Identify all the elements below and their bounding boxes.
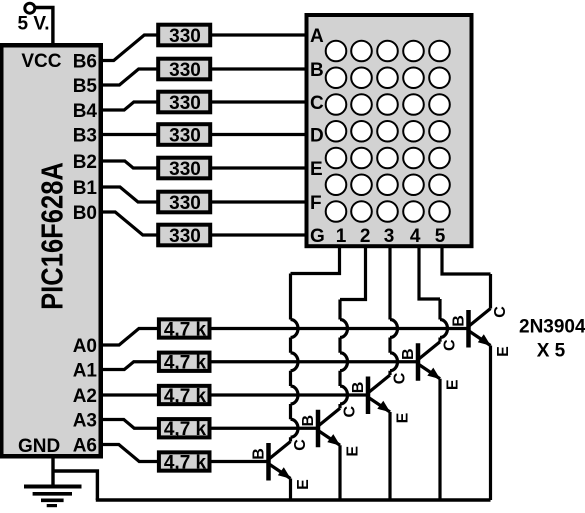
wire GND branch to emitter rail [53,471,97,500]
svg-text:PIC16F628A: PIC16F628A [35,162,70,310]
svg-text:4,7 k: 4,7 k [164,353,207,374]
wire B5 to R2 [101,69,158,85]
wire matrix column 4 to Q4 collector [419,246,440,299]
resistor R3 330 [158,92,210,114]
wire B2 to R5 [101,161,158,168]
power terminal 5V [25,3,35,13]
IC U1 PIC16F628A [1,45,101,456]
svg-text:4: 4 [410,226,421,247]
svg-text:E: E [345,446,362,457]
wire 5V to VCC [35,8,53,46]
svg-text:A2: A2 [73,386,97,407]
wire Q4 emitter to ground rail [438,379,441,500]
svg-text:G: G [310,226,325,247]
svg-text:330: 330 [169,26,201,47]
wire B1 to R6 [101,187,158,202]
wire Q2 emitter to ground rail [338,445,341,500]
resistor R10 4,7k [159,386,210,407]
svg-text:E: E [310,159,323,180]
svg-text:B3: B3 [73,125,97,146]
resistor R12 4,7k [159,452,210,473]
svg-text:330: 330 [169,125,201,146]
svg-text:B: B [251,448,268,460]
svg-text:B2: B2 [73,152,97,173]
wire R11 to base Q2 [212,427,319,430]
svg-text:B: B [400,348,417,360]
svg-text:B6: B6 [73,51,97,72]
LED matrix DIS1 5x7 [307,15,472,246]
resistor R4 330 [158,124,210,146]
svg-text:4,7 k: 4,7 k [164,452,207,473]
svg-text:2: 2 [360,226,371,247]
svg-text:X 5: X 5 [537,340,566,361]
svg-text:A3: A3 [73,410,97,431]
wire R3 to matrix row [212,100,307,103]
wire ground rail (emitters) [96,498,491,501]
svg-text:B: B [300,415,317,427]
wire A6 to R12 [101,445,158,462]
wire A0 to R8 [101,329,158,346]
wire B3 to R4 [101,133,158,136]
svg-text:4,7 k: 4,7 k [164,386,207,407]
wire R1 to matrix row [212,33,307,36]
svg-text:B: B [310,60,324,81]
svg-text:E: E [445,379,462,390]
wire GND pin down [51,456,54,486]
resistor R2 330 [158,59,210,81]
transistor Q4 2N3904 [400,339,462,390]
wire R6 to matrix row [212,200,307,203]
svg-text:GND: GND [18,436,60,457]
wire Q3 emitter to ground rail [388,412,391,500]
wire Q1 emitter to ground rail [289,479,292,501]
svg-text:4,7 k: 4,7 k [164,319,207,340]
svg-text:B: B [451,315,468,327]
svg-text:330: 330 [169,159,201,180]
ground [24,487,82,506]
svg-text:330: 330 [169,226,201,247]
wire A3 to R11 [101,420,158,429]
wire R12 to base Q1 [212,460,269,463]
wire A2 to R10 [101,393,158,396]
transistor Q5 2N3904 [451,306,513,357]
wire matrix column 5 to Q5 collector [442,246,491,274]
wire A1 to R9 [101,362,158,370]
wire R5 to matrix row [212,166,307,169]
svg-text:C: C [292,439,309,451]
wire B0 to R7 [101,212,158,235]
resistor R7 330 [158,225,210,247]
svg-text:2N3904: 2N3904 [519,316,585,337]
wire R9 to base Q4 [212,360,419,363]
svg-text:C: C [442,339,459,351]
resistor R6 330 [158,192,210,214]
resistor R11 4,7k [159,419,210,440]
svg-text:A0: A0 [73,336,97,357]
wire matrix column 1 to Q1 collector [291,246,340,274]
svg-text:1: 1 [336,226,347,247]
resistor R9 4,7k [159,353,210,374]
svg-text:5 V.: 5 V. [18,14,50,35]
svg-text:C: C [310,93,324,114]
svg-text:5: 5 [435,226,446,247]
svg-text:B4: B4 [73,101,98,122]
svg-text:3: 3 [384,226,395,247]
wire matrix column 2 to Q2 collector [340,246,366,300]
wire matrix column 3 to Q3 collector [389,244,392,247]
svg-text:A1: A1 [73,360,98,381]
svg-text:A6: A6 [73,435,97,456]
resistor R1 330 [158,25,210,47]
svg-text:A: A [310,26,324,47]
svg-text:C: C [492,306,509,318]
resistor R5 330 [158,158,210,180]
transistor Q2 2N3904 [300,406,362,457]
svg-text:330: 330 [169,93,201,114]
wire Q5 emitter to ground rail [489,346,492,501]
svg-text:B: B [350,382,367,394]
svg-text:VCC: VCC [21,51,61,72]
svg-text:C: C [342,406,359,418]
svg-text:E: E [395,412,412,423]
svg-text:D: D [310,125,324,146]
svg-text:330: 330 [169,60,201,81]
svg-text:B1: B1 [73,178,98,199]
svg-text:B5: B5 [73,76,98,97]
svg-text:B0: B0 [73,203,97,224]
svg-text:E: E [295,479,312,490]
wire R2 to matrix row [212,67,307,70]
svg-text:E: E [495,346,512,357]
svg-text:330: 330 [169,193,201,214]
wire B6 to R1 [101,35,158,61]
wire B4 to R3 [101,102,158,110]
svg-text:F: F [310,193,322,214]
svg-text:4,7 k: 4,7 k [164,419,207,440]
svg-text:C: C [392,372,409,384]
transistor Q3 2N3904 [350,372,412,423]
wire R8 to base Q5 [212,327,469,330]
wire R7 to matrix row [212,233,307,236]
wire R4 to matrix row [212,133,307,136]
resistor R8 4,7k [159,319,210,340]
wire R10 to base Q3 [212,393,369,396]
transistor Q1 2N3904 [251,439,313,490]
